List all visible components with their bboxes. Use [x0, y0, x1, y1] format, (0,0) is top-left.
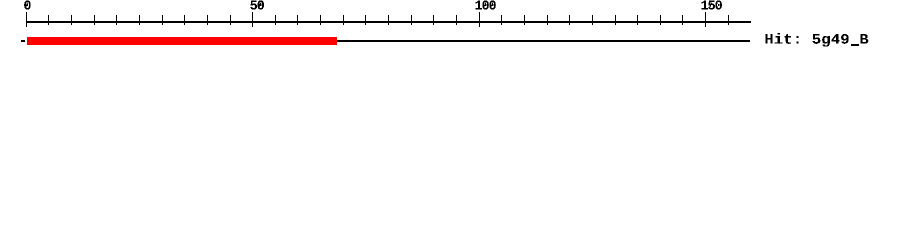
major tick 0	[26, 12, 27, 27]
major tick 50	[252, 12, 253, 27]
slashed zero marks	[26, 3, 712, 7]
ruler axis line	[26, 21, 751, 23]
ruler label 0	[24, 0, 31, 9]
feature trailing line	[337, 40, 750, 42]
ruler label 100	[475, 0, 495, 9]
major tick 100	[479, 12, 480, 27]
red alignment bar	[27, 37, 337, 45]
major tick 150	[705, 12, 706, 27]
hit label	[765, 33, 868, 47]
minor ticks every 5 units	[48, 15, 729, 25]
ruler label 150	[702, 0, 722, 9]
feature start dash	[21, 40, 25, 42]
ruler label 50	[250, 0, 264, 9]
